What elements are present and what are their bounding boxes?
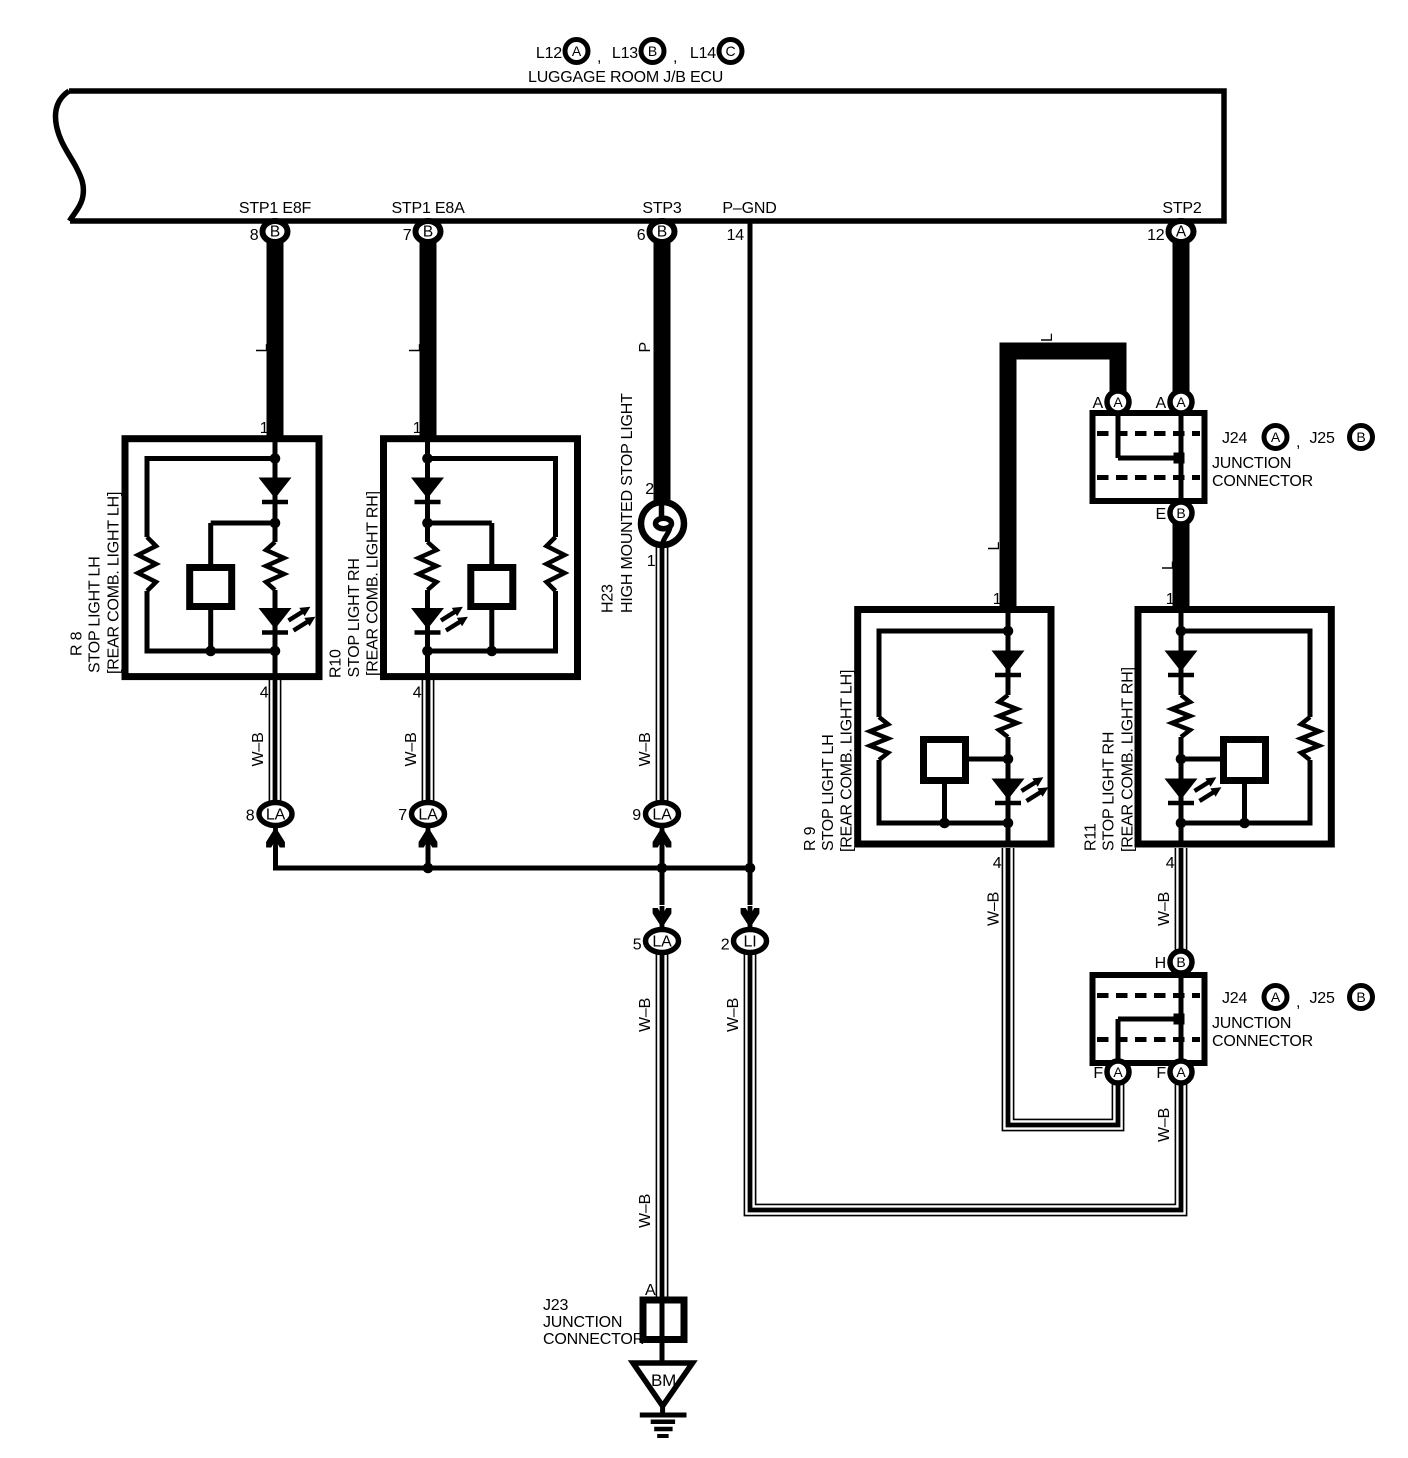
svg-text:A: A [1176, 224, 1187, 241]
svg-text:A: A [1176, 394, 1186, 410]
svg-text:B: B [1356, 989, 1365, 1005]
svg-text:B: B [1176, 505, 1185, 521]
svg-text:W–B: W–B [1156, 1108, 1173, 1142]
svg-text:W–B: W–B [725, 998, 742, 1032]
svg-text:STOP LIGHT LH: STOP LIGHT LH [87, 556, 104, 673]
svg-text:R 8: R 8 [69, 631, 86, 656]
svg-text:P: P [637, 342, 654, 352]
svg-text:LA: LA [652, 934, 672, 951]
svg-text:B: B [270, 224, 280, 241]
svg-text:LA: LA [418, 807, 438, 824]
svg-text:1: 1 [260, 420, 269, 437]
svg-text:B: B [648, 43, 657, 59]
svg-text:W–B: W–B [403, 732, 420, 766]
svg-text:12: 12 [1147, 227, 1165, 244]
svg-text:LI: LI [744, 934, 757, 951]
svg-text:L: L [254, 344, 271, 353]
svg-text:4: 4 [993, 855, 1002, 872]
svg-text:L: L [1039, 333, 1056, 342]
svg-text:CONNECTOR: CONNECTOR [1212, 473, 1313, 490]
svg-text:8: 8 [246, 808, 255, 825]
svg-text:JUNCTION: JUNCTION [1212, 1015, 1291, 1032]
svg-text:A: A [1271, 989, 1281, 1005]
svg-text:BM: BM [651, 1371, 676, 1390]
svg-text:J24: J24 [1222, 990, 1247, 1007]
svg-text:CONNECTOR: CONNECTOR [1212, 1033, 1313, 1050]
svg-text:H23: H23 [600, 584, 617, 613]
svg-text:H: H [1155, 955, 1166, 972]
svg-text:W–B: W–B [637, 732, 654, 766]
svg-text:A: A [1176, 1064, 1186, 1080]
svg-text:,: , [597, 49, 601, 66]
svg-text:P–GND: P–GND [722, 200, 776, 217]
svg-text:J25: J25 [1310, 990, 1335, 1007]
svg-text:W–B: W–B [250, 732, 267, 766]
svg-text:W–B: W–B [637, 998, 654, 1032]
svg-text:2: 2 [721, 937, 730, 954]
svg-text:STP3: STP3 [642, 200, 682, 217]
svg-text:4: 4 [260, 685, 269, 702]
svg-text:J23: J23 [543, 1297, 568, 1314]
svg-text:STP1 E8A: STP1 E8A [391, 200, 465, 217]
svg-text:STOP LIGHT RH: STOP LIGHT RH [346, 558, 363, 677]
svg-text:JUNCTION: JUNCTION [1212, 455, 1291, 472]
svg-text:L14: L14 [690, 45, 716, 62]
svg-text:E: E [1156, 506, 1166, 523]
svg-text:B: B [657, 224, 667, 241]
svg-text:A: A [572, 43, 582, 59]
svg-text:14: 14 [727, 227, 745, 244]
svg-text:R11: R11 [1082, 823, 1099, 851]
svg-text:7: 7 [398, 807, 407, 824]
svg-text:1: 1 [1166, 591, 1175, 608]
svg-text:A: A [1156, 395, 1167, 412]
svg-text:LUGGAGE ROOM J/B ECU: LUGGAGE ROOM J/B ECU [528, 69, 723, 86]
svg-text:9: 9 [632, 807, 641, 824]
svg-text:JUNCTION: JUNCTION [543, 1314, 622, 1331]
svg-text:1: 1 [647, 553, 656, 570]
svg-text:[REAR COMB. LIGHT RH]: [REAR COMB. LIGHT RH] [1119, 667, 1136, 852]
svg-text:STP2: STP2 [1162, 200, 1202, 217]
svg-text:STOP LIGHT LH: STOP LIGHT LH [820, 734, 837, 851]
svg-text:L: L [1160, 561, 1177, 570]
svg-text:STP1 E8F: STP1 E8F [239, 200, 312, 217]
svg-text:[REAR COMB. LIGHT LH]: [REAR COMB. LIGHT LH] [839, 670, 856, 852]
svg-text:A: A [1113, 394, 1123, 410]
svg-text:CONNECTOR: CONNECTOR [543, 1331, 644, 1348]
svg-text:L: L [986, 542, 1003, 551]
svg-text:6: 6 [637, 227, 646, 244]
svg-text:1: 1 [993, 591, 1002, 608]
svg-text:A: A [1093, 395, 1104, 412]
svg-text:A: A [645, 1282, 656, 1299]
svg-text:L12: L12 [536, 45, 562, 62]
svg-text:B: B [423, 224, 433, 241]
svg-text:7: 7 [403, 227, 412, 244]
svg-text:[REAR COMB. LIGHT LH]: [REAR COMB. LIGHT LH] [106, 492, 123, 674]
svg-text:2: 2 [645, 481, 654, 498]
svg-text:F: F [1093, 1065, 1103, 1082]
svg-text:8: 8 [250, 227, 259, 244]
svg-text:R 9: R 9 [802, 826, 819, 851]
svg-text:C: C [726, 43, 736, 59]
svg-text:W–B: W–B [986, 892, 1003, 926]
svg-text:,: , [1296, 434, 1300, 451]
svg-text:L13: L13 [612, 45, 638, 62]
svg-text:,: , [1296, 994, 1300, 1011]
svg-text:J25: J25 [1310, 430, 1335, 447]
svg-text:,: , [673, 49, 677, 66]
svg-text:B: B [1356, 429, 1365, 445]
svg-text:5: 5 [633, 937, 642, 954]
svg-text:4: 4 [413, 685, 422, 702]
svg-text:B: B [1176, 954, 1185, 970]
svg-text:J24: J24 [1222, 430, 1247, 447]
svg-text:R10: R10 [327, 649, 344, 678]
svg-text:F: F [1156, 1065, 1166, 1082]
svg-text:W–B: W–B [1156, 892, 1173, 926]
svg-text:A: A [1271, 429, 1281, 445]
svg-text:[REAR COMB. LIGHT RH]: [REAR COMB. LIGHT RH] [365, 491, 382, 676]
svg-text:1: 1 [413, 420, 422, 437]
svg-text:W–B: W–B [637, 1194, 654, 1228]
svg-text:LA: LA [266, 807, 286, 824]
svg-text:LA: LA [652, 807, 672, 824]
svg-text:L: L [407, 344, 424, 353]
svg-text:STOP LIGHT RH: STOP LIGHT RH [1100, 732, 1117, 851]
svg-text:HIGH MOUNTED STOP LIGHT: HIGH MOUNTED STOP LIGHT [619, 393, 636, 613]
svg-text:A: A [1113, 1064, 1123, 1080]
svg-text:4: 4 [1166, 855, 1175, 872]
